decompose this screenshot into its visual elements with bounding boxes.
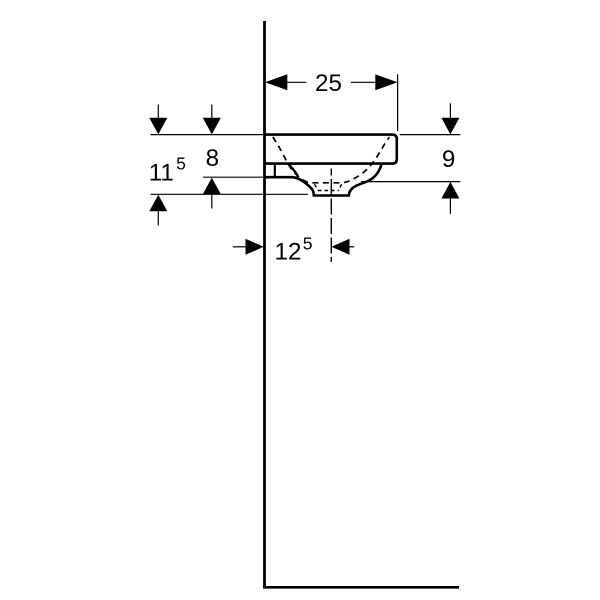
drain hidden dashed bbox=[315, 184, 342, 190]
dim 8 bottom arrow bbox=[203, 178, 221, 195]
svg-text:5: 5 bbox=[303, 234, 313, 254]
dim 25 line bbox=[285, 81, 379, 83]
wall bbox=[263, 21, 266, 587]
floor bbox=[263, 586, 459, 589]
dim 8 bottom extension line bbox=[203, 176, 263, 178]
left top extension line bbox=[151, 134, 264, 136]
dim 12.5 left arrow bbox=[246, 239, 264, 255]
dim 11.5 bottom arrow bbox=[149, 195, 167, 212]
dim 25 extension line bbox=[397, 74, 399, 131]
svg-text:8: 8 bbox=[206, 145, 219, 172]
svg-text:25: 25 bbox=[315, 70, 342, 97]
dim 25 right arrow bbox=[375, 74, 397, 90]
dim 25 left arrow bbox=[265, 74, 287, 90]
dim 9 bottom arrow bbox=[441, 182, 459, 199]
svg-text:12: 12 bbox=[275, 239, 302, 266]
dim 11.5 bottom extension line bbox=[151, 193, 309, 195]
basin front lip bbox=[288, 164, 298, 177]
wall bracket bbox=[274, 165, 276, 177]
dim 12.5 right arrow bbox=[331, 239, 349, 255]
basin rim bbox=[264, 135, 397, 164]
basin underside bbox=[264, 164, 381, 196]
dim 9 bottom extension line bbox=[361, 181, 460, 183]
dim 8 top arrow bbox=[203, 118, 221, 135]
svg-text:5: 5 bbox=[176, 154, 186, 174]
dim 9 top arrow bbox=[441, 118, 459, 135]
centerline bbox=[330, 169, 332, 263]
dim 9 top extension line bbox=[400, 134, 461, 136]
svg-text:11: 11 bbox=[149, 159, 174, 186]
dim 11.5 top arrow bbox=[149, 118, 167, 135]
svg-text:9: 9 bbox=[442, 146, 455, 173]
inner bowl hidden dashed bbox=[273, 137, 390, 183]
